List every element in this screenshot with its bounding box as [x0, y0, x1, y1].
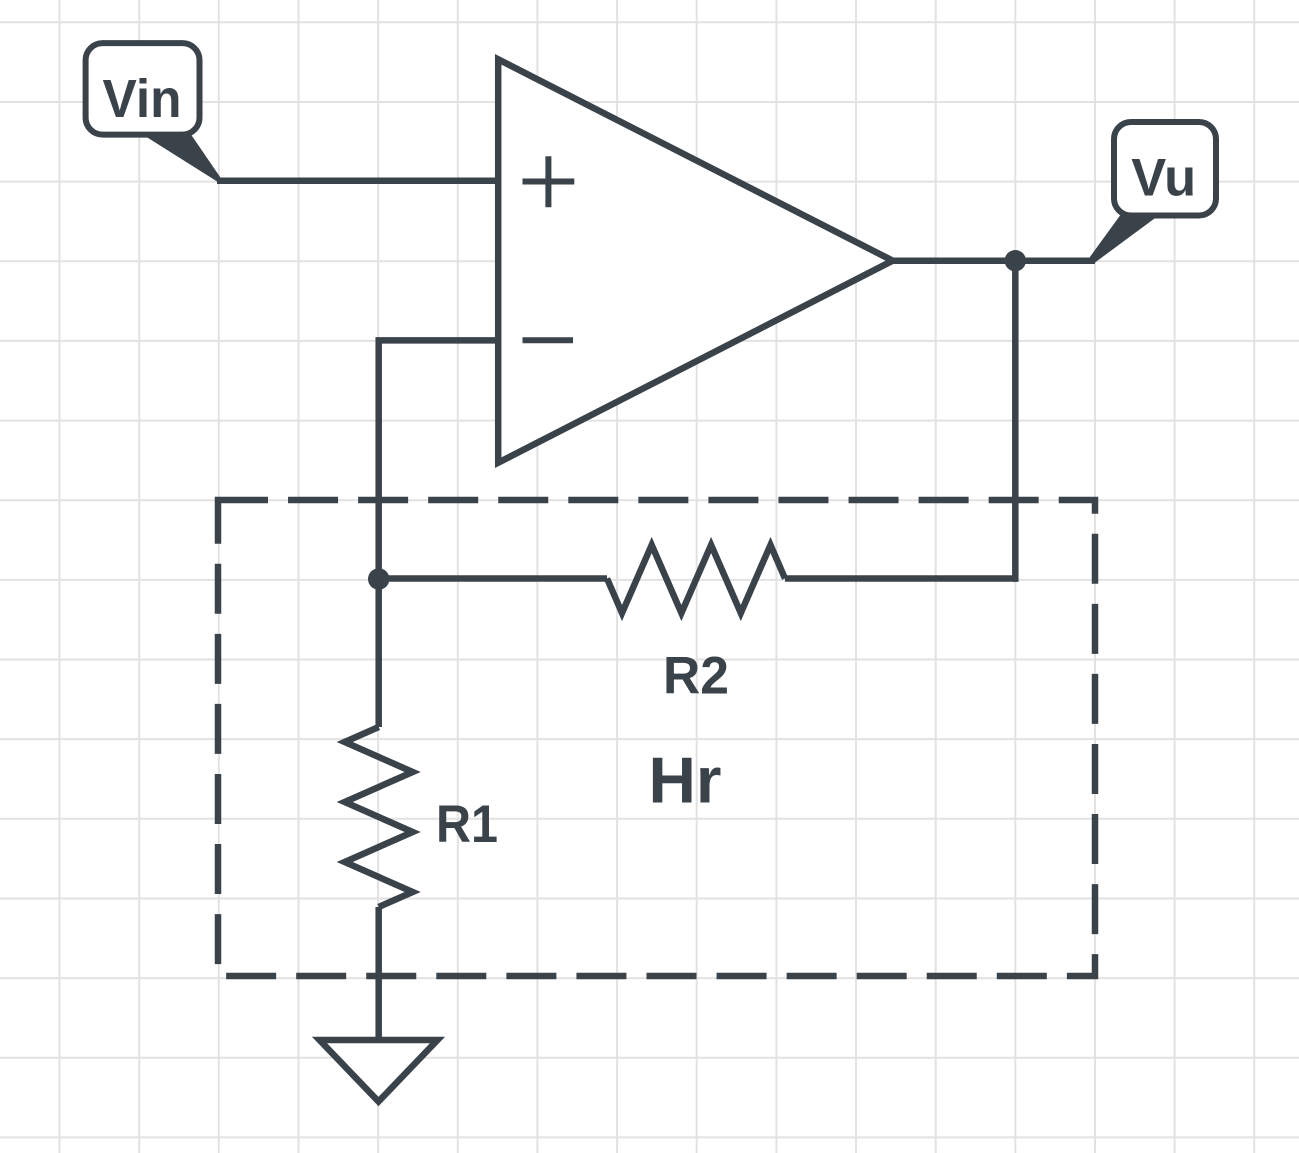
junction node output [1005, 250, 1026, 271]
wire node A to R2 [379, 575, 607, 582]
pin + (non-inverting input mark) [523, 156, 575, 207]
resistor R2 [607, 545, 785, 613]
ground [320, 1040, 438, 1102]
svg-text:R2: R2 [663, 647, 729, 706]
svg-text:Vin: Vin [103, 69, 182, 129]
pin - (inverting input mark) [523, 337, 574, 343]
wire R2 to feedback [785, 575, 1019, 582]
junction node A [368, 568, 389, 589]
node Vu label [1089, 122, 1216, 263]
wire Vin to + input [217, 177, 500, 184]
wire feedback vertical [1012, 261, 1019, 582]
resistor R1 [345, 727, 413, 907]
wire - input to node A [379, 340, 500, 579]
svg-text:Hr: Hr [649, 744, 722, 817]
wire output to Vu [892, 257, 1095, 264]
svg-text:R1: R1 [436, 795, 498, 854]
node Vin label [86, 43, 222, 184]
wire node A to R1 [375, 579, 382, 727]
op-amp U1 [498, 59, 893, 462]
svg-text:Vu: Vu [1131, 149, 1196, 208]
dashed box Hr [218, 500, 1095, 976]
wire R1 to ground [375, 907, 382, 1040]
